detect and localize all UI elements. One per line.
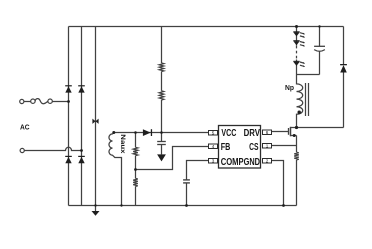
svg-text:CS: CS	[249, 142, 259, 153]
svg-text:Naux: Naux	[119, 134, 126, 154]
svg-text:FB: FB	[221, 142, 231, 153]
svg-text:GND: GND	[244, 157, 260, 168]
svg-text:2: 2	[266, 158, 269, 163]
svg-text:6: 6	[266, 130, 269, 135]
svg-text:4: 4	[212, 144, 215, 149]
svg-text:Np: Np	[285, 85, 294, 92]
svg-text:VCC: VCC	[221, 128, 236, 139]
svg-text:DRV: DRV	[244, 128, 261, 139]
svg-text:1: 1	[266, 143, 269, 148]
svg-text:3: 3	[212, 158, 215, 163]
svg-text:COMP: COMP	[221, 157, 244, 168]
svg-text:AC: AC	[20, 123, 30, 132]
svg-text:5: 5	[212, 130, 215, 135]
